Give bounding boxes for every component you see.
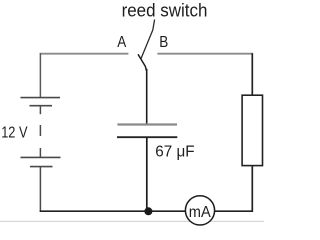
svg-text:A: A [117,34,126,51]
svg-text:12 V: 12 V [1,124,28,141]
svg-text:reed switch: reed switch [122,1,208,21]
svg-text:B: B [159,34,168,51]
svg-text:67 μF: 67 μF [155,144,195,161]
svg-text:mA: mA [189,204,211,221]
